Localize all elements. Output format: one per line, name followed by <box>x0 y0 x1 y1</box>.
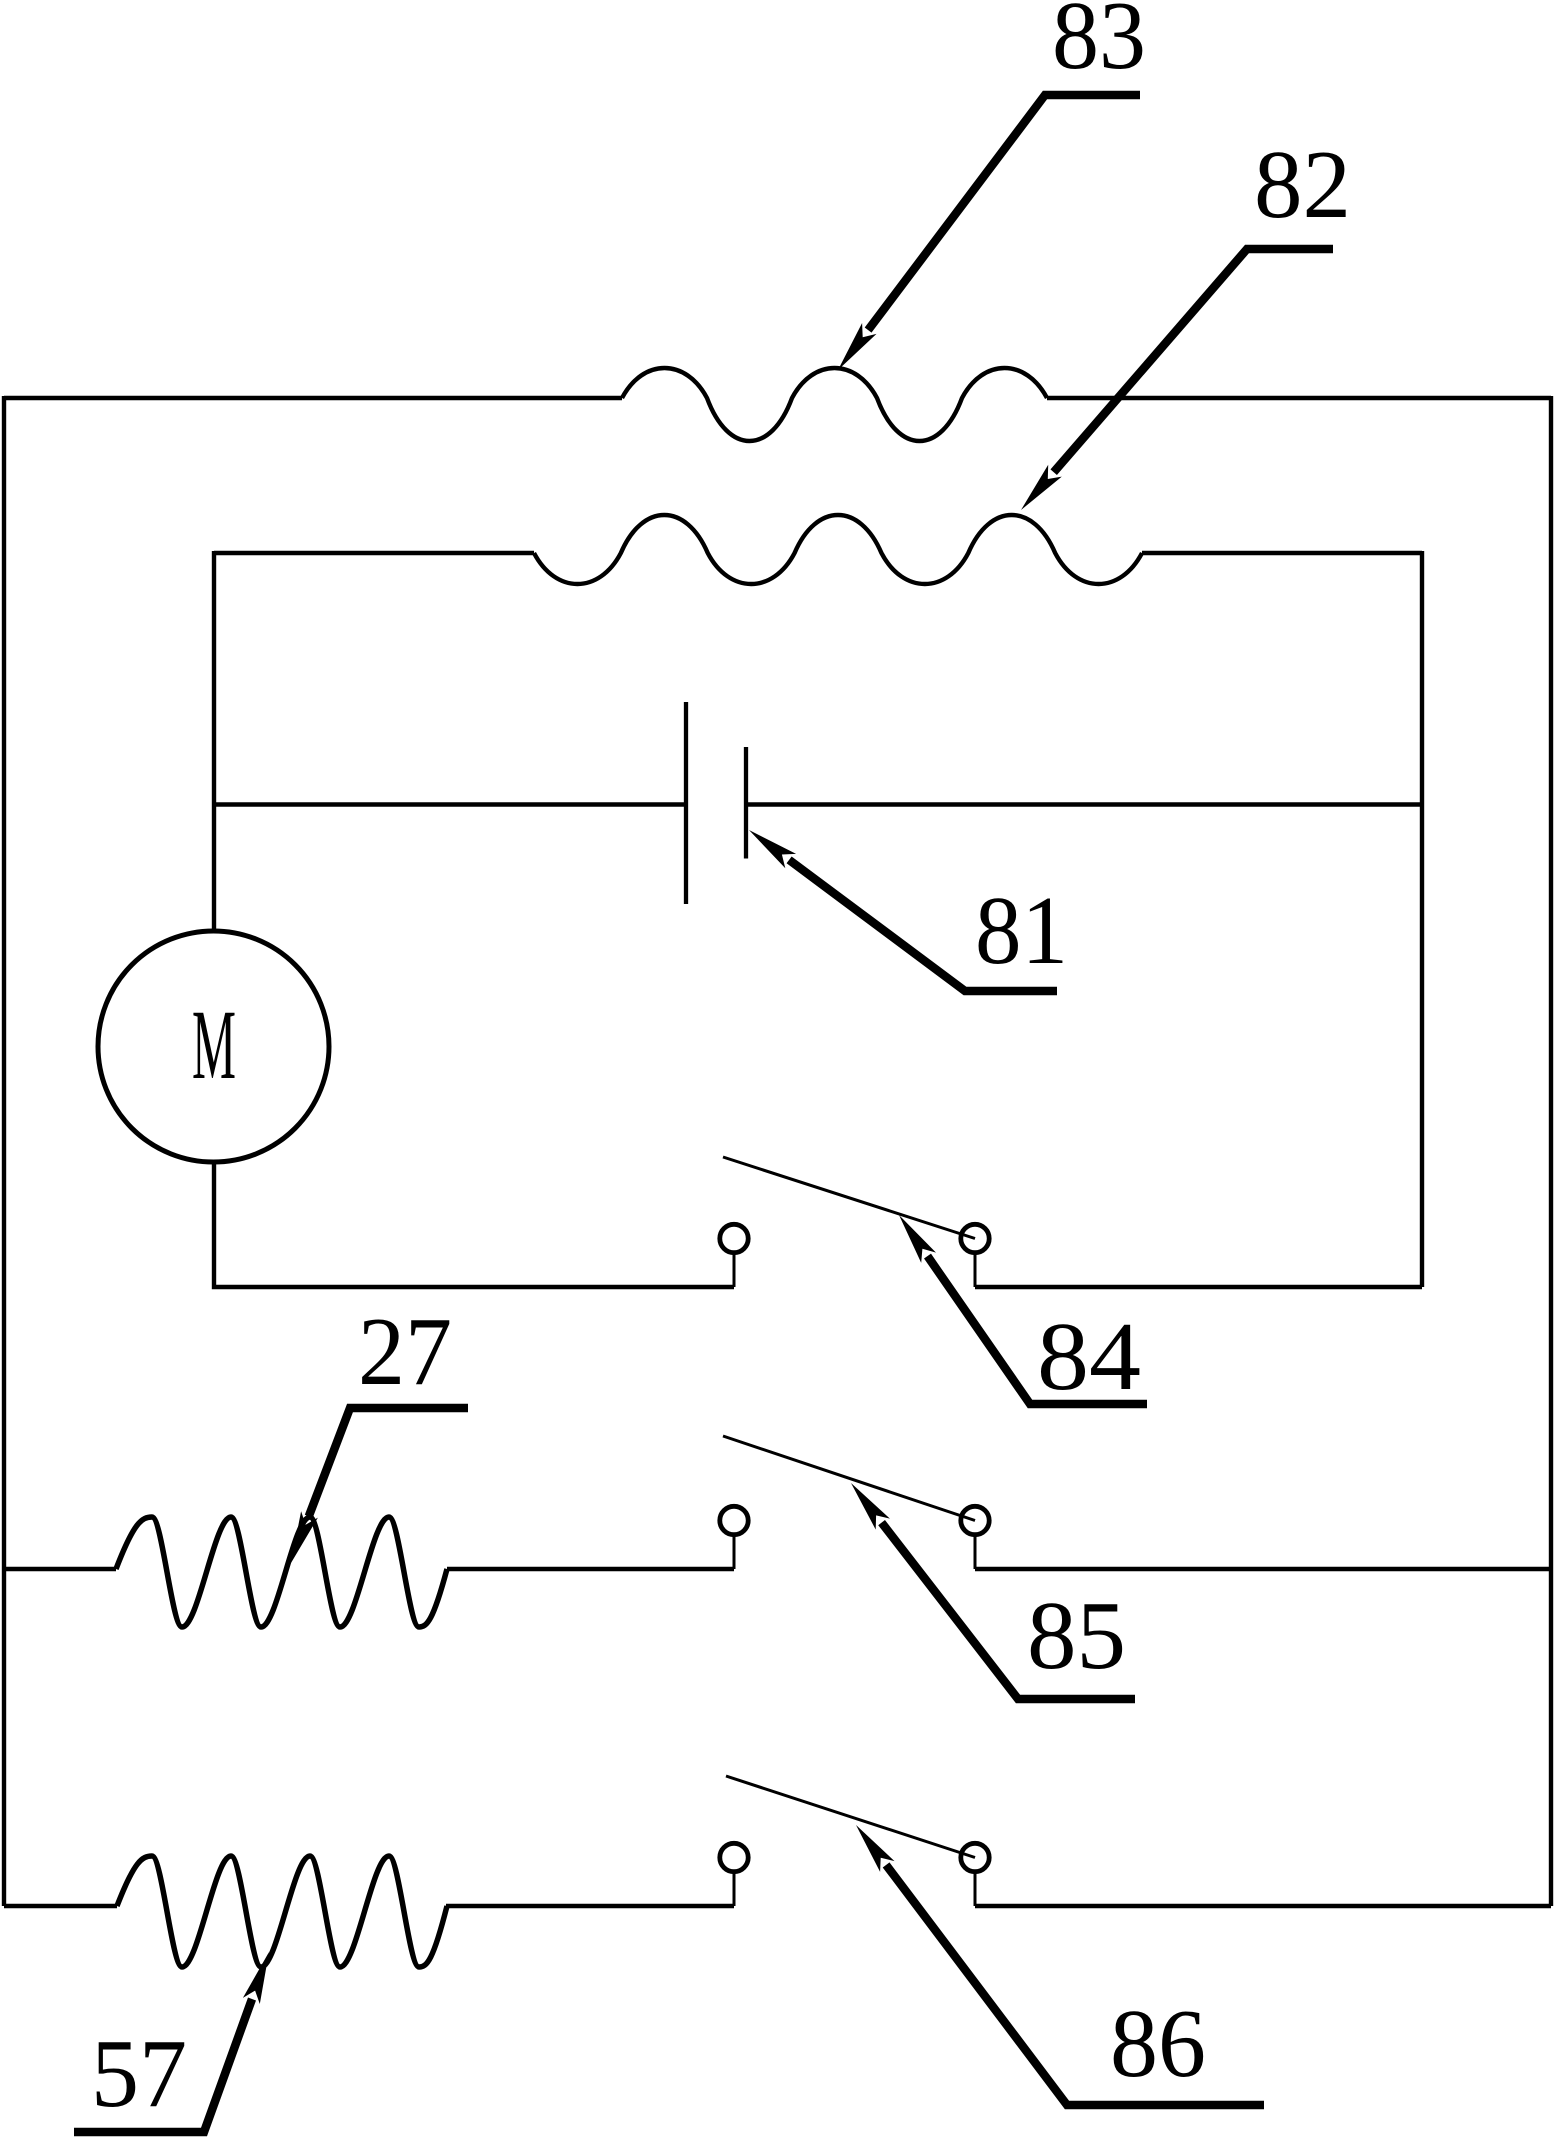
wire row5 middle <box>447 1567 734 1571</box>
switch 84 left stem <box>733 1253 736 1287</box>
svg-text:86: 86 <box>1110 1990 1206 2097</box>
switch 86 left stem <box>733 1872 736 1906</box>
arrowhead 82 <box>1021 465 1062 510</box>
wire inner top right segment <box>1142 551 1422 555</box>
battery 81 long plate <box>684 702 688 904</box>
wire row6 right <box>975 1904 1551 1908</box>
svg-text:84: 84 <box>1037 1303 1141 1410</box>
wire outer left edge <box>2 396 6 1906</box>
wire inner left upper (to motor) <box>212 551 216 931</box>
svg-text:27: 27 <box>358 1298 452 1405</box>
switch 85 blade <box>723 1436 975 1521</box>
leader line 86 <box>886 1865 1264 2105</box>
wire row6 middle <box>446 1904 734 1908</box>
svg-text:57: 57 <box>91 2020 187 2127</box>
arrowhead 83 <box>838 323 877 370</box>
wire outer right edge <box>1549 396 1553 1906</box>
svg-text:M: M <box>192 989 236 1100</box>
svg-text:81: 81 <box>975 877 1068 984</box>
wire inner left lower (motor to bottom) <box>214 1162 734 1287</box>
wire row5 right <box>975 1567 1551 1571</box>
switch 86 right contact circle <box>961 1843 989 1871</box>
resistor 83 <box>622 368 1047 441</box>
leader line 82 <box>1054 249 1333 472</box>
leader line 81 <box>789 860 1057 991</box>
switch 85 left stem <box>733 1535 736 1569</box>
switch 84 right stem <box>974 1253 977 1287</box>
svg-text:85: 85 <box>1027 1582 1126 1689</box>
switch 86 right stem <box>974 1872 977 1906</box>
arrowhead 84 <box>899 1215 936 1263</box>
wire battery row left <box>214 802 684 806</box>
switch 85 right contact circle <box>961 1506 989 1534</box>
leader line 84 <box>928 1256 1148 1404</box>
arrowhead 86 <box>856 1825 895 1872</box>
battery 81 short plate <box>744 747 748 859</box>
wire top loop right segment <box>1047 396 1551 400</box>
resistor 27 <box>116 1517 447 1627</box>
arrowhead 27 <box>291 1511 318 1563</box>
svg-text:82: 82 <box>1254 131 1351 238</box>
leader line 83 <box>868 95 1140 330</box>
resistor 57 <box>117 1856 447 1967</box>
resistor 82 <box>534 515 1142 584</box>
wire inner top left segment <box>214 551 534 555</box>
switch 84 right contact circle <box>961 1224 989 1252</box>
switch 86 left contact circle <box>720 1843 748 1871</box>
arrowhead 57 <box>243 1952 269 2004</box>
switch 84 blade <box>723 1157 975 1239</box>
leader line 57 <box>74 1999 252 2132</box>
motor M circle <box>98 931 329 1162</box>
switch 84 left contact circle <box>720 1224 748 1252</box>
wire top loop left segment <box>4 396 622 400</box>
wire inner bottom right segment <box>975 1285 1422 1289</box>
arrowhead 81 <box>749 830 796 868</box>
leader line 85 <box>882 1523 1135 1699</box>
svg-text:83: 83 <box>1052 0 1146 89</box>
switch 85 right stem <box>974 1535 977 1569</box>
wire row5 left <box>4 1567 116 1571</box>
switch 85 left contact circle <box>720 1506 748 1534</box>
wire row6 left <box>4 1904 117 1908</box>
switch 86 blade <box>726 1776 975 1858</box>
arrowhead 85 <box>851 1483 890 1530</box>
wire inner right edge <box>1420 551 1424 1287</box>
wire battery row right <box>748 802 1422 806</box>
leader line 27 <box>309 1408 468 1516</box>
